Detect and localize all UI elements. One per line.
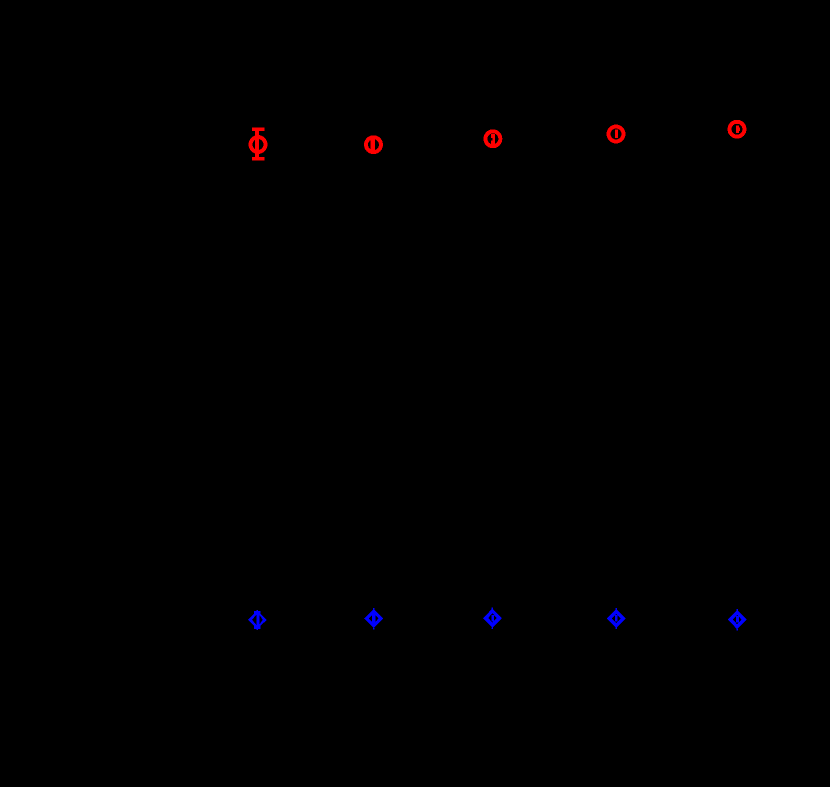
voltage source V1 (red circle with stem and terminal plates) xyxy=(251,127,266,160)
dependent current source F3 (blue diamond with arrow) xyxy=(483,608,502,629)
voltage source V2 (red circle with inner bar) xyxy=(366,137,381,153)
dependent current source F4 (blue diamond with arrow) xyxy=(607,608,626,629)
dependent current source F2 (blue diamond with arrow) xyxy=(364,608,383,630)
dependent current source F5 (blue diamond with arrow) xyxy=(728,609,747,630)
voltage source V3 (red circle with inner bar, notched) xyxy=(485,131,500,146)
voltage source V5 (red circle with inner bar) xyxy=(730,122,745,137)
voltage source V4 (red circle with inner bar) xyxy=(609,127,624,142)
dependent current source F1 (blue diamond with arrow and terminal stubs) xyxy=(248,610,267,630)
